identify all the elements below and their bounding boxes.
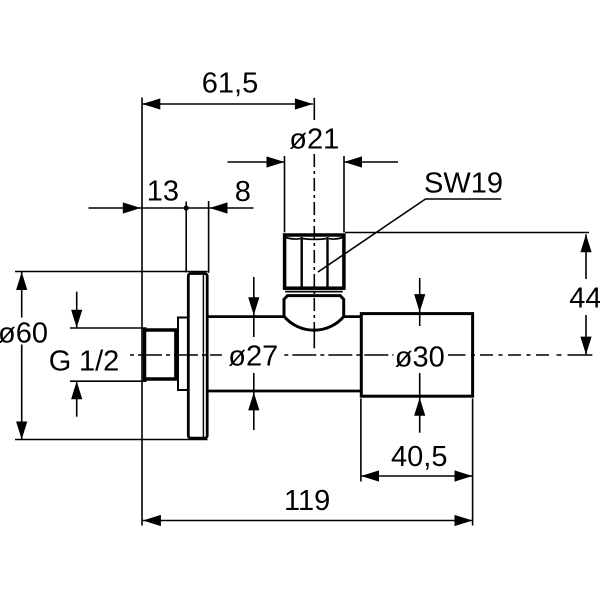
svg-text:ø30: ø30 <box>395 341 445 373</box>
svg-text:13: 13 <box>147 176 179 208</box>
svg-text:119: 119 <box>284 485 330 517</box>
svg-text:ø60: ø60 <box>0 318 48 350</box>
svg-text:1/2: 1/2 <box>79 346 119 378</box>
svg-text:ø27: ø27 <box>228 341 278 373</box>
svg-text:40,5: 40,5 <box>391 441 447 473</box>
svg-text:44: 44 <box>569 283 600 315</box>
svg-text:8: 8 <box>235 176 251 208</box>
svg-text:61,5: 61,5 <box>202 67 258 99</box>
svg-text:G: G <box>49 346 72 378</box>
svg-text:ø21: ø21 <box>289 124 339 156</box>
svg-text:SW19: SW19 <box>424 168 503 200</box>
